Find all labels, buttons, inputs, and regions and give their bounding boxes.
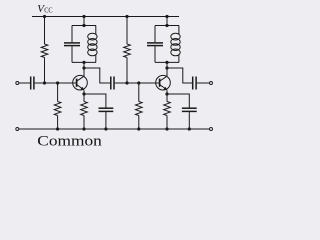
wire tank2 to Q2 collector bbox=[166, 62, 168, 76]
node rail-R1 bbox=[43, 15, 46, 18]
resistor R4 bbox=[124, 44, 131, 58]
wire collector2 to C7 bbox=[167, 68, 192, 83]
node base1-R2 bbox=[56, 81, 59, 84]
tank2 bottom wire bbox=[155, 61, 179, 63]
node base2-R4 bbox=[125, 81, 128, 84]
wire C4 to Q2 base bbox=[115, 82, 160, 84]
wire C3 to common bbox=[105, 111, 107, 129]
wire C6 to common bbox=[188, 111, 190, 129]
svg-text:CC: CC bbox=[44, 7, 53, 15]
wire rail to R4 bbox=[126, 17, 128, 45]
capacitor C1 (input coupling) bbox=[30, 77, 32, 90]
wire C7 to output terminal bbox=[197, 82, 210, 84]
node tank1 bottom bbox=[82, 61, 85, 64]
node rail-tank2 bbox=[165, 15, 168, 18]
wire input to C1 bbox=[19, 82, 30, 84]
svg-text:Common: Common bbox=[37, 133, 102, 149]
capacitor C7 (output coupling) bbox=[192, 77, 194, 90]
resistor R1 bbox=[41, 44, 48, 58]
resistor R5 bbox=[136, 102, 143, 116]
wire tank1 left upper bbox=[71, 26, 73, 43]
common right terminal bbox=[210, 128, 213, 131]
wire R6 to common bbox=[166, 116, 168, 130]
node collector2 tap bbox=[165, 66, 168, 69]
wire base node to R2 bbox=[57, 83, 59, 102]
node emitter1 bbox=[82, 92, 85, 95]
output terminal bbox=[210, 82, 213, 85]
wire rail to R1 bbox=[44, 17, 46, 45]
transistor Q1 bbox=[73, 75, 88, 90]
wire R5 to common bbox=[138, 116, 140, 130]
capacitor C5 (tank 2) bbox=[147, 42, 163, 44]
wire tank2 left upper bbox=[154, 26, 156, 43]
capacitor C6 (emitter bypass 2) bbox=[182, 107, 197, 109]
node R2-common bbox=[56, 127, 59, 130]
capacitor C4 (interstage coupling) bbox=[110, 77, 112, 90]
wire Q1 emitter down bbox=[83, 90, 85, 101]
node C3-common bbox=[104, 127, 107, 130]
node emitter2 bbox=[165, 92, 168, 95]
wire R4 to base node bbox=[126, 58, 128, 84]
resistor R6 (emitter 2) bbox=[164, 102, 171, 116]
wire C1 to Q1 base bbox=[35, 82, 77, 84]
wire R2 to common bbox=[57, 116, 59, 130]
resistor R3 (emitter 1) bbox=[81, 102, 88, 116]
node base1-R1 bbox=[43, 81, 46, 84]
wire emitter1 to C3 bbox=[84, 94, 106, 108]
wire emitter2 to C6 bbox=[167, 94, 189, 108]
Vcc power rail bbox=[32, 16, 179, 18]
node tank1 top bbox=[82, 24, 85, 27]
node C6-common bbox=[188, 127, 191, 130]
inductor L2 (tank 2) bbox=[178, 26, 180, 35]
node R5-common bbox=[137, 127, 140, 130]
wire R3 to common bbox=[83, 116, 85, 130]
node R3-common bbox=[82, 127, 85, 130]
capacitor C3 (emitter bypass 1) bbox=[99, 107, 114, 109]
wire rail to tank2 bbox=[166, 17, 168, 26]
wire Q2 emitter down bbox=[166, 90, 168, 101]
inductor L1 (tank 1) bbox=[95, 26, 97, 35]
tank1 top wire bbox=[72, 25, 96, 27]
wire collector1 to C4 bbox=[84, 68, 110, 83]
wire tank2 left lower bbox=[154, 46, 156, 62]
node R6-common bbox=[165, 127, 168, 130]
tank1 bottom wire bbox=[72, 61, 96, 63]
common left terminal bbox=[16, 128, 19, 131]
wire tank1 to Q1 collector bbox=[83, 62, 85, 76]
capacitor C2 (tank 1) bbox=[64, 42, 80, 44]
input terminal bbox=[16, 82, 19, 85]
node collector1 tap bbox=[82, 66, 85, 69]
wire tank1 left lower bbox=[71, 46, 73, 62]
node base2-R5 bbox=[137, 81, 140, 84]
node tank2 top bbox=[165, 24, 168, 27]
wire rail to tank1 bbox=[83, 17, 85, 26]
node rail-R4 bbox=[125, 15, 128, 18]
wire R1 to base node bbox=[44, 58, 46, 84]
transistor Q2 bbox=[156, 75, 171, 90]
resistor R2 bbox=[54, 102, 61, 116]
wire base node to R5 bbox=[138, 83, 140, 102]
tank2 top wire bbox=[155, 25, 179, 27]
node tank2 bottom bbox=[165, 61, 168, 64]
node rail-tank1 bbox=[82, 15, 85, 18]
common rail bbox=[19, 128, 209, 130]
